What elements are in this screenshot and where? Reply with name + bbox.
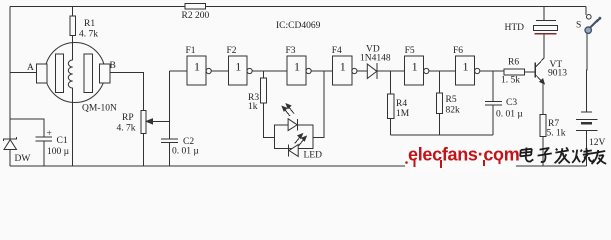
wire sensor bottom	[72, 103, 74, 167]
buzzer HTD	[534, 7, 558, 34]
watermark drips	[405, 160, 500, 168]
svg-text:1: 1	[294, 60, 300, 74]
svg-text:A: A	[27, 63, 34, 73]
wire switch to battery	[585, 7, 587, 15]
svg-text:+: +	[47, 129, 52, 139]
watermark chinese 子	[538, 148, 552, 162]
watermark white backing	[405, 144, 516, 172]
svg-text:82k: 82k	[446, 106, 461, 116]
svg-text:F5: F5	[405, 46, 415, 56]
wire top rail right	[206, 6, 587, 8]
svg-text:1: 1	[412, 60, 418, 74]
svg-text:RP: RP	[122, 113, 134, 123]
svg-text:1: 1	[340, 60, 346, 74]
wire F6-R6	[480, 70, 504, 72]
svg-text:LED: LED	[304, 151, 323, 161]
resistor R7	[540, 115, 546, 167]
resistor R5	[437, 71, 443, 135]
inverter F5	[405, 56, 429, 85]
svg-text:R1: R1	[84, 19, 95, 29]
svg-text:1N4148: 1N4148	[360, 54, 391, 64]
wire F1-F2	[211, 70, 228, 72]
LED block	[275, 104, 313, 156]
watermark chinese 电	[520, 148, 533, 162]
svg-text:F4: F4	[332, 46, 342, 56]
wire wiper node vertical	[169, 71, 171, 139]
svg-text:9013: 9013	[548, 69, 567, 79]
svg-text:DW: DW	[15, 154, 31, 164]
watermark chinese 友	[592, 150, 607, 164]
switch S	[585, 14, 601, 33]
inverter F2	[229, 56, 253, 85]
svg-text:F6: F6	[453, 46, 463, 56]
svg-text:F2: F2	[227, 46, 237, 56]
svg-text:R6: R6	[508, 58, 519, 68]
wire F5-F6	[429, 70, 456, 72]
inverter F1	[187, 56, 211, 85]
wire F3-F4	[311, 70, 332, 72]
svg-text:0. 01 µ: 0. 01 µ	[172, 147, 199, 157]
potentiometer RP	[141, 111, 170, 167]
svg-text:C3: C3	[506, 98, 517, 108]
svg-text:1: 1	[235, 60, 241, 74]
resistor R6	[504, 69, 535, 75]
resistor R2	[185, 4, 206, 10]
svg-text:5. 1k: 5. 1k	[547, 129, 566, 139]
svg-text:HTD: HTD	[505, 23, 525, 33]
watermark chinese 烧	[572, 148, 594, 163]
svg-text:1: 1	[463, 60, 469, 74]
svg-text:B: B	[110, 61, 116, 71]
svg-text:R2 200: R2 200	[182, 11, 210, 21]
capacitor C3	[485, 71, 502, 135]
svg-text:4. 7k: 4. 7k	[79, 30, 98, 40]
resistor R4	[387, 71, 394, 135]
watermark chinese 发	[555, 147, 570, 163]
svg-text:1k: 1k	[248, 102, 258, 112]
inverter F4	[333, 56, 357, 85]
transistor VT 9013	[535, 35, 544, 115]
svg-text:F1: F1	[186, 46, 196, 56]
inverter F6	[456, 56, 480, 85]
wire top rail left	[10, 6, 185, 8]
gas sensor QM-10N	[37, 43, 111, 103]
svg-text:S: S	[576, 21, 581, 31]
svg-text:1M: 1M	[396, 109, 410, 119]
capacitor C2	[161, 139, 178, 166]
svg-text:1: 1	[194, 60, 200, 74]
svg-text:C1: C1	[57, 136, 68, 146]
wire LED branch	[313, 71, 324, 138]
wire left vertical	[9, 7, 11, 140]
diode VD 1N4148	[367, 63, 404, 79]
svg-text:F3: F3	[286, 46, 296, 56]
svg-text:R5: R5	[446, 95, 457, 105]
svg-text:R7: R7	[548, 119, 559, 129]
svg-text:R4: R4	[396, 99, 407, 109]
svg-text:100 µ: 100 µ	[47, 147, 70, 157]
resistor R1	[70, 7, 76, 43]
wire bottom rail	[10, 165, 587, 167]
resistor R3	[260, 71, 274, 138]
wire node B	[110, 72, 144, 110]
wire F2-F3	[252, 70, 287, 72]
svg-text:4. 7k: 4. 7k	[117, 124, 136, 134]
capacitor C1	[36, 137, 53, 166]
battery 12V	[576, 112, 598, 166]
svg-text:0. 01 µ: 0. 01 µ	[496, 110, 523, 120]
wire F4-VD	[357, 70, 367, 72]
inverter F3	[287, 56, 311, 85]
wire R4-R5-C3 bottom	[390, 134, 493, 136]
svg-text:1. 5k: 1. 5k	[501, 76, 520, 86]
svg-text:IC:CD4069: IC:CD4069	[276, 21, 321, 31]
zener diode DW	[4, 137, 17, 166]
wire branch to C1	[10, 119, 44, 137]
svg-text:QM-10N: QM-10N	[82, 104, 117, 114]
wire to F1 input	[170, 70, 188, 72]
svg-text:C2: C2	[183, 137, 194, 147]
svg-text:elecfans·com: elecfans·com	[408, 145, 519, 165]
wire node A	[10, 71, 37, 73]
svg-text:12V: 12V	[589, 138, 606, 148]
